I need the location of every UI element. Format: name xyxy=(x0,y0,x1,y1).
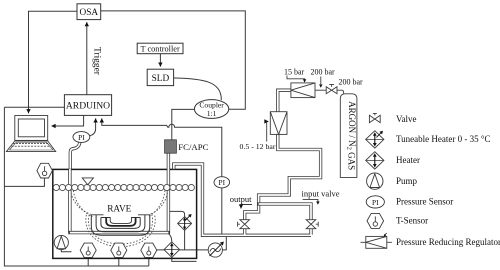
box SLD xyxy=(147,69,173,85)
pipe PI1 tube to tank xyxy=(70,142,80,169)
bath left wall xyxy=(68,170,71,233)
svg-text:ARDUINO: ARDUINO xyxy=(66,101,110,112)
tuneable heater lower xyxy=(164,242,180,258)
svg-text:15 bar: 15 bar xyxy=(284,67,305,76)
wire ARDUINO left to left rail xyxy=(4,106,64,108)
legend pump xyxy=(367,173,383,189)
wire heater stems to bottom rail xyxy=(87,257,89,266)
wire T controller to SLD xyxy=(159,54,161,67)
svg-text:input valve: input valve xyxy=(302,189,340,199)
legend tuneable heater xyxy=(366,131,384,148)
pressure reducing regulator 0.5-12 bar xyxy=(270,112,287,135)
svg-text:200 bar: 200 bar xyxy=(311,67,336,76)
svg-text:PI: PI xyxy=(78,133,85,142)
keyboard keys xyxy=(12,144,50,147)
heater H2 xyxy=(111,243,127,257)
dashed drop left xyxy=(71,190,91,215)
pressure sensor PI2 xyxy=(214,177,230,188)
output valve xyxy=(238,220,250,229)
heater H1 xyxy=(80,243,96,257)
svg-text:T controller: T controller xyxy=(140,45,179,54)
svg-text:Valve: Valve xyxy=(396,114,417,124)
svg-text:0.5 - 12 bar: 0.5 - 12 bar xyxy=(240,142,276,151)
wire ARDUINO to laptop xyxy=(52,115,84,126)
gas cylinder ARGON/N2 xyxy=(340,94,357,178)
svg-text:Trigger: Trigger xyxy=(92,47,102,76)
wire heaters to regulator line xyxy=(157,249,209,251)
box T controller xyxy=(137,43,183,54)
svg-text:Pressure Reducing Regulator: Pressure Reducing Regulator xyxy=(396,237,500,247)
pipe regulator to output valve (staircase) xyxy=(245,90,321,220)
wire trigger arrow ARDUINO to OSA xyxy=(86,22,88,94)
cup U4 dark xyxy=(106,218,135,226)
svg-text:PI: PI xyxy=(372,198,379,207)
svg-text:Tuneable Heater 0 - 35 °C: Tuneable Heater 0 - 35 °C xyxy=(396,134,491,144)
pressure sensor PI1 xyxy=(73,132,90,143)
svg-text:PI: PI xyxy=(219,178,226,187)
wire PI2 to ARDUINO (long, with hop) xyxy=(102,118,222,176)
heater H3 xyxy=(141,243,157,257)
pipe bottom manifold to tank xyxy=(174,164,311,235)
svg-text:T-Sensor: T-Sensor xyxy=(396,216,428,226)
fiber FC/APC into bath right wall xyxy=(167,153,170,233)
pipe tee to input valve xyxy=(257,204,311,220)
legend pressure sensor xyxy=(366,196,384,208)
tuneable heater upper xyxy=(178,214,192,230)
box OSA xyxy=(77,4,101,20)
coil bubbler row xyxy=(53,184,194,190)
pipe regulator to valve xyxy=(315,89,326,91)
variable regulator (crossed circle) xyxy=(208,242,224,258)
wire PI1 to ARDUINO xyxy=(90,118,96,135)
svg-text:output: output xyxy=(230,194,252,204)
wire branch to T-sensor xyxy=(4,178,44,186)
pipe valve to cylinder xyxy=(337,90,344,94)
bath bottom xyxy=(68,231,170,234)
coupler ellipse xyxy=(194,100,228,119)
cup U1 xyxy=(91,215,150,235)
pump (circulation) xyxy=(54,235,68,249)
svg-text:Heater: Heater xyxy=(396,155,420,165)
wire coupler to FC/APC xyxy=(172,109,195,139)
wire lower tuneable heater bottom stem xyxy=(172,257,197,261)
label 15 bar xyxy=(284,67,306,82)
svg-text:200 bar: 200 bar xyxy=(339,78,364,87)
legend pressure reducing regulator xyxy=(361,233,392,248)
label input valve xyxy=(302,189,340,205)
label 200 bar (1) xyxy=(311,67,336,88)
wire crossed circle right riser xyxy=(222,237,226,250)
svg-text:FC/APC: FC/APC xyxy=(178,142,208,152)
wire pump foot xyxy=(61,250,71,252)
FC/APC connector xyxy=(165,140,209,153)
wire OSA to computer xyxy=(29,11,78,113)
valve (gas line) xyxy=(326,84,337,93)
wire SLD to coupler (curved fiber) xyxy=(174,78,222,100)
label output xyxy=(230,194,252,208)
input valve xyxy=(306,220,318,229)
svg-text:SLD: SLD xyxy=(152,74,170,84)
legend valve xyxy=(369,113,380,122)
cup U5 inner xyxy=(110,218,131,224)
svg-text:OSA: OSA xyxy=(79,8,98,18)
svg-text:Pressure Sensor: Pressure Sensor xyxy=(396,197,453,207)
svg-text:1:1: 1:1 xyxy=(207,109,217,118)
wire left rail down and bottom rail xyxy=(4,107,148,266)
svg-text:Pump: Pump xyxy=(396,176,418,186)
wire OSA to coupler (right loop) xyxy=(101,11,246,109)
computer keyboard xyxy=(6,141,55,152)
tank vessel xyxy=(53,169,197,258)
computer screen xyxy=(15,116,48,141)
wire upper tuneable heater stem xyxy=(170,211,185,216)
pressure reducing regulator 15 bar xyxy=(291,83,315,98)
legend T-sensor xyxy=(367,213,384,228)
svg-text:ARGON / N2 GAS: ARGON / N2 GAS xyxy=(345,101,357,170)
level indicator triangle xyxy=(82,178,93,185)
label 0.5 - 12 bar xyxy=(240,121,276,151)
wire lower tuneable heater entry xyxy=(167,233,172,242)
dashed skirt under cup xyxy=(88,215,152,244)
cup rims xyxy=(91,214,151,216)
dashed drop right xyxy=(150,190,168,215)
wire PI2 stem to gas manifold xyxy=(221,188,223,234)
legend heater xyxy=(366,152,384,169)
cup U3 xyxy=(101,218,140,229)
T-sensor hexagon xyxy=(37,163,53,178)
box ARDUINO xyxy=(64,95,111,116)
svg-text:RAVE: RAVE xyxy=(107,205,131,215)
cup U2 xyxy=(96,215,145,232)
